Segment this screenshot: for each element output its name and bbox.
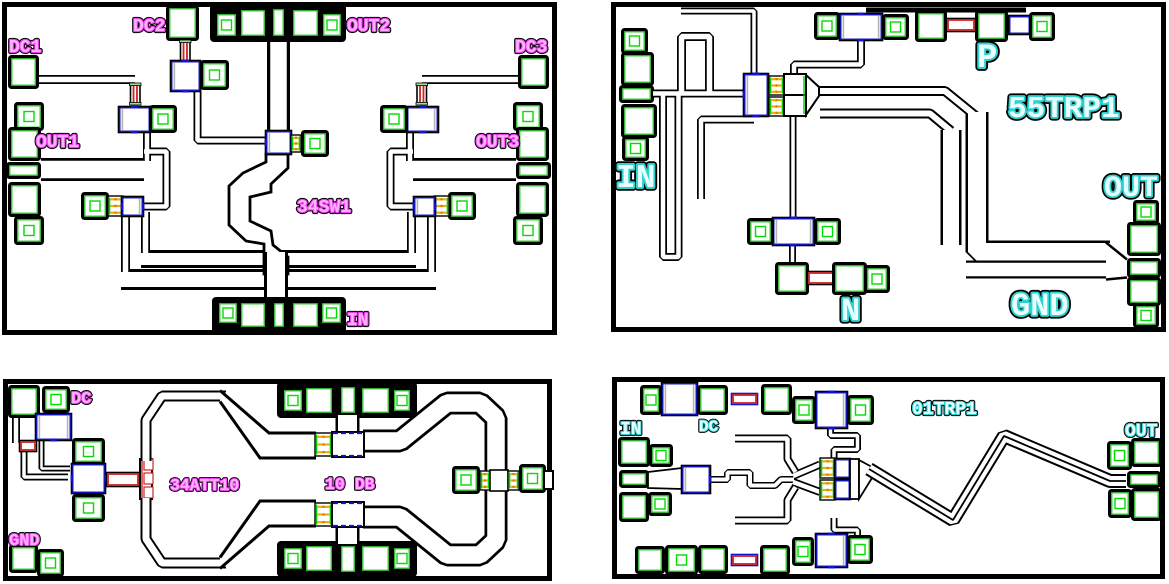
pad top row ground left [283,389,304,413]
pad DC4 top ground [642,387,661,414]
svg-text:55TRP1: 55TRP1 [1008,92,1120,127]
svg-text:OUT1: OUT1 [36,133,79,153]
pad gate4 top ground [794,398,815,423]
ring left upper [146,396,226,461]
svg-text:IN: IN [347,311,369,331]
pad IN2 signal [621,87,653,102]
label N [841,293,860,330]
wire CDC to shunt [42,441,71,469]
stub to border [544,471,553,489]
pad gate4 top right [849,397,873,424]
label OUT1 [36,133,79,153]
pad DC4 top a [699,387,727,414]
capacitor P link [1009,16,1030,34]
pad att right left [454,468,479,493]
svg-text:OUT2: OUT2 [347,17,390,37]
capacitor gate4 bot [816,533,847,569]
feed top cell [336,415,360,434]
svg-text:OUT: OUT [1125,422,1158,442]
label OUT [1125,422,1158,442]
pad IN ground left [218,302,239,325]
zigzag coupled output line [869,436,1126,520]
pad IN signal [273,302,286,329]
feed line IN [264,252,288,300]
svg-text:OUT: OUT [1104,172,1158,206]
pad OUT upper right(mirror) [518,129,548,160]
FET fingers left [108,196,123,216]
pad OUT ground top left [16,104,43,130]
label DC3 [515,38,547,58]
capacitor C IN4 [682,466,712,493]
pad bot row right [361,545,391,573]
svg-text:DC: DC [699,418,719,436]
pad IN left [240,302,267,329]
label OUT3 [476,133,519,153]
pad IN4 lower [621,494,648,521]
chip border 34SW1 [5,5,555,333]
pad RN left [777,264,808,294]
pad OUT4 lower ground [1110,491,1131,517]
wire DC bias left [39,75,135,84]
pad P left [917,12,946,41]
pad IN2 upper [623,54,653,85]
resistor R DC2 [180,40,192,63]
wire return lines and FET stubs [121,212,436,280]
FET Q2 fingers [291,135,301,152]
capacitor gate4 top [816,391,847,430]
wire gate cap to M1 [794,40,861,74]
capacitor gate [840,13,882,42]
pad DC4 top b [763,386,791,414]
capacitor N [773,217,814,247]
pad DC2 [168,7,198,40]
chip border 01TRP1 [615,380,1163,577]
svg-text:DC: DC [71,390,91,409]
capacitor M1 in [743,73,769,118]
pad att right right [521,466,545,492]
wire M1 to N cap [790,116,797,220]
resistor R series [107,473,140,487]
pad DC4 bot b [762,547,789,574]
wire net OUT line left [41,131,167,207]
resistor RDC small [20,441,37,452]
capacitor Q4 gate upper [835,459,850,478]
pad DC4 bot a [700,547,727,573]
wire top ground to M1 gate [681,11,754,74]
pad OUT4 upper ground [1109,443,1131,469]
chip border 55TRP1 [614,5,1164,330]
pad IN2 lower [623,106,656,137]
pad shunt top [74,440,104,464]
resistor R DC1 [130,83,142,105]
pad OUT2b signal [1129,260,1160,277]
label 34ATT10 [170,476,239,495]
pad via C DC3 [382,107,407,132]
resistor RD4 top [732,394,758,405]
pad gate cap right [884,16,908,39]
label IN [347,311,369,331]
pad IN ground right [321,302,343,325]
label 10 DB [325,475,375,494]
pad OUT lower left [10,184,40,216]
FET Q4 drain block [850,459,859,499]
wire DC pad down [12,416,20,443]
svg-text:34SW1: 34SW1 [297,198,351,218]
pad top row right [361,387,391,415]
pad GND blank [11,546,37,572]
capacitor att lower [332,502,364,527]
svg-text:GND: GND [1011,288,1069,325]
pad RN right [834,264,866,294]
ring left lower [146,498,226,563]
pad bot row ground left [283,547,304,571]
FET att upper fingers [315,433,332,456]
pad row IN boundary [212,297,346,334]
pad bot row ground right [393,547,412,571]
label DC2 [133,17,165,37]
meander line center to IN [229,154,288,274]
pad top row left [305,387,334,415]
att right center line [490,470,508,491]
label 01TRP1 [912,400,977,420]
pad P right [977,12,1007,41]
T junction bar [140,459,153,499]
capacitor shunt mid [71,464,107,493]
pad OUT2 ground left [216,13,238,38]
capacitor DC4 top [662,383,697,415]
svg-text:34ATT10: 34ATT10 [170,476,239,495]
svg-text:IN: IN [616,160,656,197]
label GND [9,532,40,551]
resistor RN [808,272,835,285]
pad row top boundary [277,382,417,418]
pad OUT4 upper [1133,440,1161,466]
pad OUT2b ground bottom [1135,305,1158,327]
pad shunt bottom [74,496,104,521]
pad IN4 lower ground [650,494,671,515]
FET capacitor left [121,197,145,216]
svg-text:P: P [977,40,997,78]
pad OUT ground bottom left [16,218,43,244]
svg-text:N: N [841,293,860,330]
label 55TRP1 [1008,92,1120,127]
taper IN4 [648,468,682,489]
pad OUT lower right(mirror) [518,184,548,216]
pad OUT2b ground top [1135,202,1158,223]
pad IN4 upper [620,439,649,466]
FET Q4 lower fingers [820,480,835,500]
pad via C DC2 [202,62,228,89]
pad OUT2 signal [272,8,286,38]
FET capacitor right(mirror) [413,197,437,216]
FET att right right fingers [508,471,519,490]
label 34SW1 [297,198,351,218]
taper M1 output [806,75,819,115]
line GND return [966,261,1110,279]
pad OUT2b upper [1129,224,1160,255]
pad bot row signal [340,545,357,574]
svg-text:GND: GND [9,532,40,551]
pad P ground [1031,14,1054,40]
wire C2 to Q2 [198,90,267,141]
pad N cap right [816,220,840,244]
capacitor C DC2 [171,60,200,93]
wire net M1 output lines [818,91,1110,252]
label OUT [1104,172,1158,206]
capacitor C DC3 [407,106,438,134]
pad DC blank [10,387,39,417]
pad OUT upper left [10,129,40,160]
capacitor C DC1 [119,106,150,134]
FET Q4 upper fingers [820,458,835,478]
pad via C DC1 [151,107,176,132]
wire gate4 bot S [831,518,858,553]
pad via Q2 [303,132,328,156]
label OUT2 [347,17,390,37]
pad top row ground right [393,389,412,413]
merged line under top border [866,8,1026,13]
label DC1 [9,38,42,58]
feed line OUT2 [267,40,290,133]
pad N cap left [749,220,773,244]
svg-text:DC2: DC2 [133,17,165,37]
pad IN4 signal [621,472,648,487]
FET att lower fingers [315,503,332,526]
pad IN right [292,302,320,329]
pad OUT2 right [292,9,320,38]
ring right [363,403,496,555]
pad DC3 [520,57,548,88]
resistor RP [947,19,976,32]
capacitor Q4 gate lower [835,480,850,499]
pad OUT ground bottom right(mirror) [515,218,542,244]
FET att right left fingers [480,471,490,490]
capacitor att upper [332,432,364,457]
wire net gate splitter [710,439,820,521]
taper Q4 out [859,460,872,499]
wire RDC to shunt [24,451,68,477]
pad IN4 upper ground [651,446,672,466]
label GND [1011,288,1069,325]
wire N cap to RN [789,245,796,263]
svg-text:OUT3: OUT3 [476,133,519,153]
pad RN ground [866,267,889,292]
capacitor Q2 cap [265,131,293,154]
pad OUT4 signal [1129,473,1160,487]
svg-text:01TRP1: 01TRP1 [912,400,977,420]
pad bot row left [305,545,334,573]
feed bottom cell [336,525,360,544]
label IN [616,160,656,197]
svg-text:DC3: DC3 [515,38,547,58]
ring left upper wedge into cell [220,391,316,459]
pad gate4 bot ground [794,539,813,565]
pad IN2 ground top [623,30,647,53]
pad OUT4 lower [1133,490,1161,520]
pad OUT2b lower [1129,279,1160,305]
pad GND ground [39,551,63,576]
pad gate4 bot right [849,537,872,563]
label DC [699,418,719,436]
svg-text:10 DB: 10 DB [325,475,375,494]
pad IN2 ground bottom [624,138,648,160]
pad OUT signal right(mirror) [518,164,550,178]
chip border 34ATT10 [6,382,550,579]
pad gate cap left [816,14,839,39]
label P [977,40,997,78]
FET M1 lower cell [769,97,784,116]
FET M1 upper cell [769,76,784,95]
wire net IN2 with stubs [653,37,746,258]
pad via FET left [83,194,108,219]
wire gate4 top S [831,426,858,461]
pad DC4 bot blank [637,548,664,573]
pad OUT signal left [8,164,40,178]
pad top row signal [340,386,357,415]
FET fingers right(mirror) [434,196,449,216]
wire M1 lower stub [701,120,754,200]
pad OUT ground top right(mirror) [515,104,542,130]
pad DC ground [44,388,69,412]
resistor R DC3 [416,83,428,105]
label DC [71,390,91,409]
taper to OUT pad [1106,243,1127,280]
svg-text:IN: IN [620,420,642,440]
pad row bottom boundary [277,541,417,577]
pad OUT2 ground right [322,13,343,38]
wire net OUT line right(mirror) [391,131,517,207]
wire DC bias right(mirror) [422,75,518,84]
pad via FET right(mirror) [450,194,475,219]
pad DC1 [10,57,38,88]
resistor RD4 bot [732,555,758,566]
FET M1 drain block [784,74,806,116]
pad DC4 bot ground [667,547,697,574]
label IN [620,420,642,440]
pad OUT2 left [240,9,267,38]
svg-text:DC1: DC1 [9,38,42,58]
ring left lower wedge into cell [220,501,316,569]
pad row OUT2 boundary [210,4,346,42]
capacitor CDC [36,414,71,442]
